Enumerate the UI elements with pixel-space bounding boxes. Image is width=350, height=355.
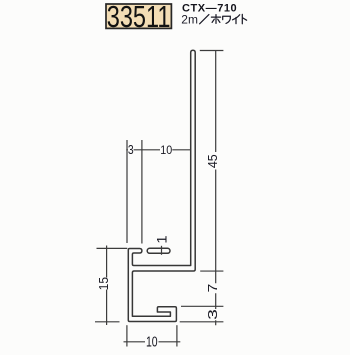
svg-text:10: 10	[146, 333, 158, 350]
svg-text:3: 3	[206, 309, 220, 320]
svg-text:2m: 2m	[181, 12, 198, 26]
svg-text:1: 1	[155, 235, 170, 243]
svg-text:7: 7	[206, 284, 220, 293]
svg-text:10: 10	[160, 144, 172, 157]
svg-text:15: 15	[97, 277, 111, 290]
svg-text:33511: 33511	[107, 0, 171, 34]
svg-text:45: 45	[206, 154, 220, 168]
svg-text:3: 3	[128, 143, 134, 157]
